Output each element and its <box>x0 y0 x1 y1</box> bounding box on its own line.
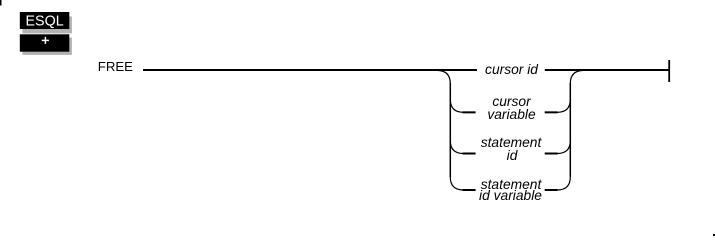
svg-text:ESQL: ESQL <box>26 14 64 30</box>
svg-text:variable: variable <box>487 107 536 122</box>
svg-text:FREE: FREE <box>98 59 133 74</box>
svg-text:id variable: id variable <box>479 188 542 203</box>
svg-text:id: id <box>507 148 519 163</box>
svg-text:cursor id: cursor id <box>485 62 539 77</box>
